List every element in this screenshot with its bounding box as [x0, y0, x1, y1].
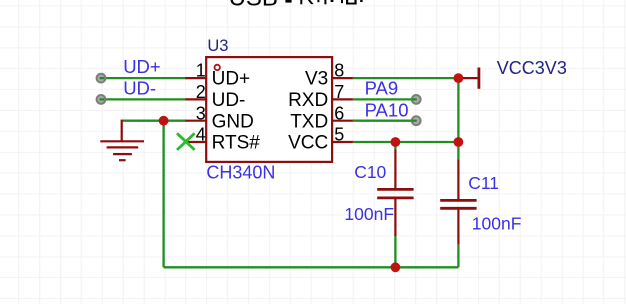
port terminal PA9 — [412, 95, 421, 104]
svg-text:UD+: UD+ — [212, 69, 251, 90]
svg-text:C10: C10 — [354, 162, 386, 182]
svg-text:VCC: VCC — [288, 133, 328, 154]
port terminal UD- — [97, 95, 106, 104]
svg-text:8: 8 — [334, 61, 344, 81]
wire vertical VCC rail — [457, 78, 459, 159]
ground symbol — [100, 120, 144, 161]
svg-text:1: 1 — [196, 61, 206, 81]
pin 2 stub — [186, 98, 207, 100]
wire net PA10 pin6 — [353, 120, 415, 122]
pin 3 stub — [186, 120, 207, 122]
svg-text:6: 6 — [334, 103, 344, 123]
wire pin8 V3 to VCC3V3 — [353, 77, 459, 79]
svg-text:USB: USB — [229, 0, 278, 12]
pin 1 stub — [186, 77, 207, 79]
junction pin5/rail — [454, 137, 464, 147]
svg-text:7: 7 — [334, 82, 344, 102]
title USB转串口 (clipped at top) — [229, 0, 363, 12]
no-connect X pin4 — [177, 133, 195, 150]
svg-text:3: 3 — [196, 103, 206, 123]
svg-text:VCC3V3: VCC3V3 — [497, 58, 567, 78]
wire GND horizontal pin3 — [122, 120, 187, 122]
svg-text:PA10: PA10 — [365, 100, 409, 121]
pin 5 stub — [332, 141, 353, 143]
capacitor C10 — [377, 149, 413, 236]
wire pin5 VCC — [353, 141, 459, 143]
wire C11 bottom — [457, 245, 459, 267]
svg-text:V3: V3 — [305, 69, 328, 90]
svg-text:PA9: PA9 — [365, 77, 399, 98]
pin 4 stub — [186, 141, 207, 143]
svg-text:U3: U3 — [207, 37, 228, 55]
svg-text:TXD: TXD — [290, 111, 328, 132]
svg-text:C11: C11 — [468, 173, 499, 193]
capacitor C11 — [440, 159, 476, 245]
junction GND node — [159, 116, 169, 126]
svg-text:RTS#: RTS# — [212, 133, 261, 154]
port terminal UD+ — [97, 74, 106, 83]
IC U3 body — [206, 57, 332, 162]
svg-text:UD-: UD- — [212, 90, 246, 111]
svg-text:RXD: RXD — [288, 90, 328, 111]
svg-text:4: 4 — [196, 125, 206, 145]
svg-text:UD-: UD- — [123, 78, 156, 99]
wire C10 top — [394, 142, 396, 149]
svg-text:UD+: UD+ — [123, 56, 161, 77]
power flag VCC3V3 — [458, 68, 479, 89]
junction bottom/C10 — [391, 262, 401, 272]
svg-text:GND: GND — [212, 111, 254, 132]
junction VCC3V3 node — [454, 73, 464, 83]
pin 7 stub — [332, 98, 353, 100]
wire net UD- pin2 — [101, 98, 187, 100]
wire net UD+ pin1 — [101, 77, 187, 79]
pin 6 stub — [332, 120, 353, 122]
svg-text:2: 2 — [196, 82, 206, 102]
wire bottom horizontal — [164, 266, 459, 268]
junction pin5/C10 — [391, 137, 401, 147]
wire net PA9 pin7 — [353, 98, 415, 100]
svg-text:100nF: 100nF — [344, 204, 394, 224]
svg-text:100nF: 100nF — [472, 213, 522, 233]
pin1 indicator circle — [215, 65, 220, 70]
svg-text:CH340N: CH340N — [206, 162, 275, 182]
port terminal PA10 — [412, 116, 421, 125]
wire GND vertical down — [162, 121, 164, 268]
wire C10 bottom — [394, 236, 396, 267]
pin 8 stub — [332, 77, 353, 79]
svg-text:5: 5 — [334, 125, 344, 145]
